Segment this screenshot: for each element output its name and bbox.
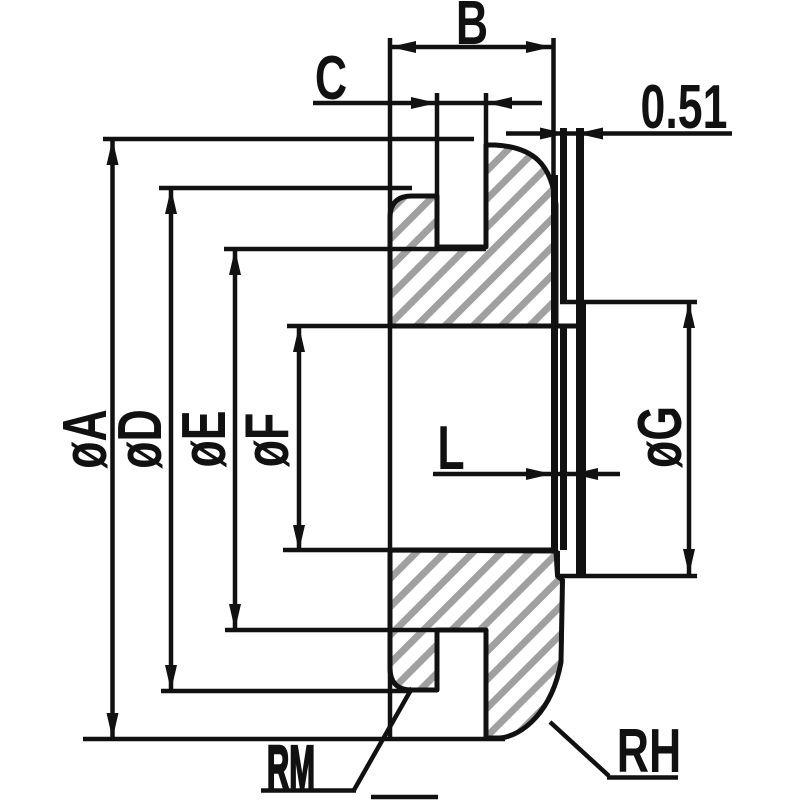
svg-text:øG: øG [626,406,695,468]
svg-text:B: B [456,0,488,58]
svg-text:RH: RH [617,717,681,786]
svg-text:L: L [437,414,464,483]
svg-text:øF: øF [233,413,302,468]
svg-text:0.51: 0.51 [641,73,728,142]
svg-text:C: C [315,44,347,113]
svg-text:øD: øD [106,409,175,469]
svg-text:RM: RM [267,735,315,800]
svg-text:øE: øE [170,410,239,467]
